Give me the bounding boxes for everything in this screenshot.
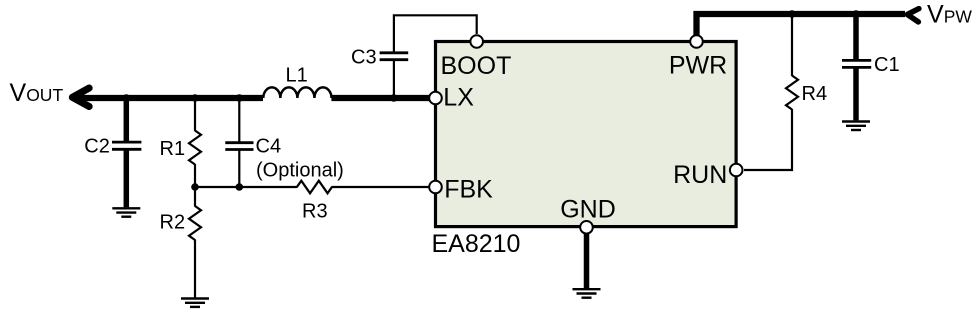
svg-text:C1: C1 (874, 54, 900, 76)
svg-text:R4: R4 (802, 83, 828, 105)
svg-text:RUN: RUN (673, 161, 727, 189)
svg-text:PWR: PWR (669, 52, 727, 80)
svg-text:VOUT: VOUT (10, 79, 64, 107)
svg-text:L1: L1 (286, 64, 308, 86)
svg-text:BOOT: BOOT (441, 52, 512, 80)
svg-text:VPW: VPW (927, 1, 972, 29)
svg-text:(Optional): (Optional) (256, 160, 344, 182)
svg-text:R2: R2 (160, 211, 186, 233)
svg-text:EA8210: EA8210 (432, 230, 521, 258)
svg-text:C4: C4 (256, 135, 282, 157)
svg-text:C3: C3 (351, 47, 377, 69)
svg-text:FBK: FBK (444, 176, 493, 204)
svg-text:R3: R3 (302, 201, 328, 223)
svg-text:LX: LX (443, 84, 474, 112)
svg-text:R1: R1 (160, 138, 186, 160)
svg-text:C2: C2 (84, 136, 110, 158)
svg-text:GND: GND (560, 196, 616, 224)
